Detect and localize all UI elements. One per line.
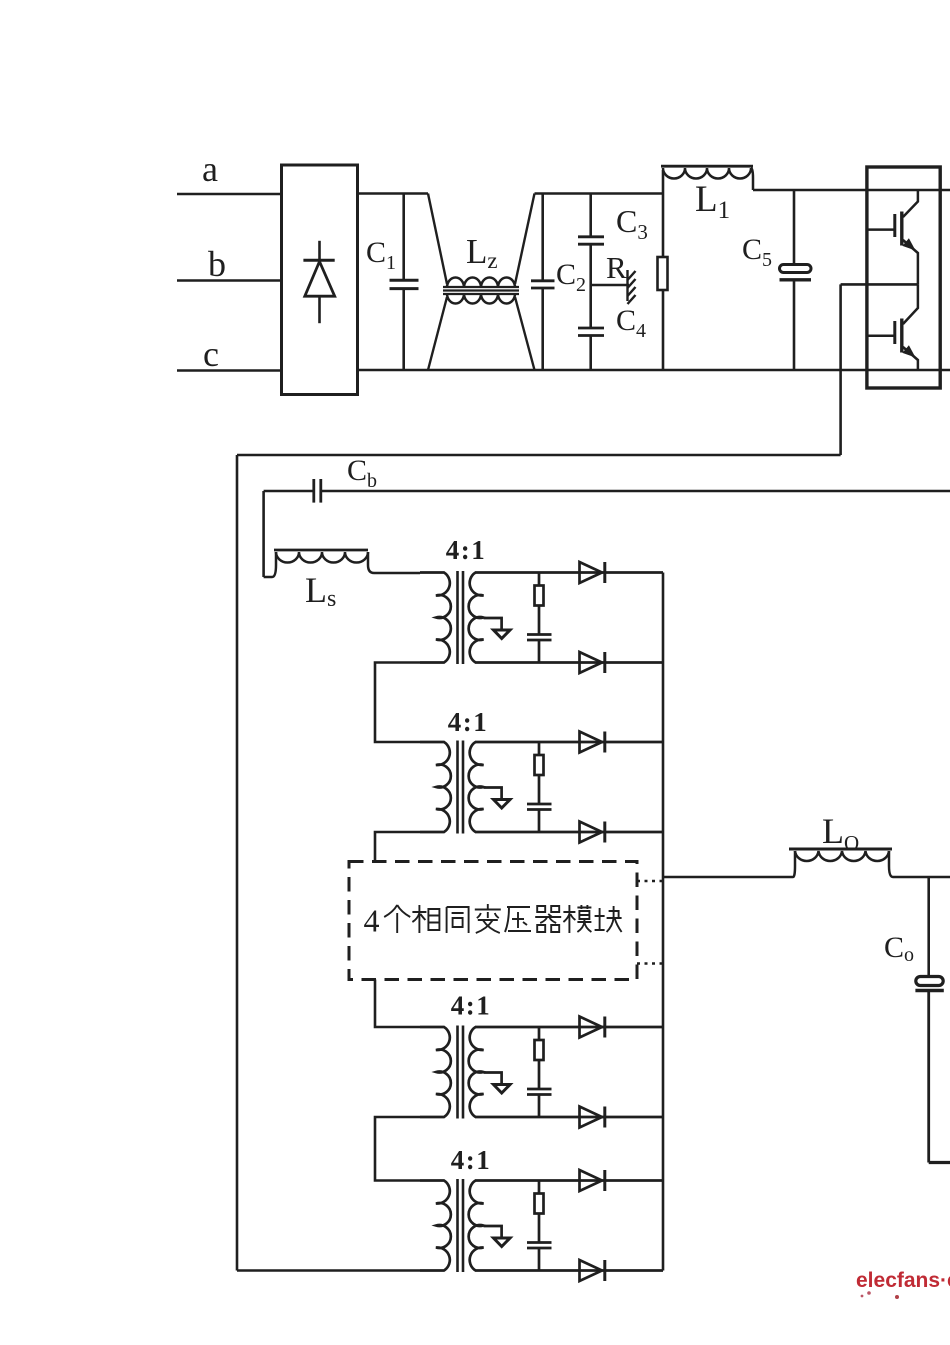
svg-text:a: a (202, 149, 218, 189)
svg-text:R: R (606, 250, 627, 285)
svg-text:elecfans·c: elecfans·c (856, 1269, 950, 1292)
svg-text:4: 4 (364, 903, 380, 939)
svg-text:4:1: 4:1 (448, 707, 489, 737)
svg-text:4:1: 4:1 (446, 535, 487, 565)
svg-text:b: b (208, 244, 226, 284)
svg-text:4:1: 4:1 (451, 991, 492, 1021)
svg-text:4:1: 4:1 (451, 1145, 492, 1175)
svg-text:c: c (203, 334, 219, 374)
